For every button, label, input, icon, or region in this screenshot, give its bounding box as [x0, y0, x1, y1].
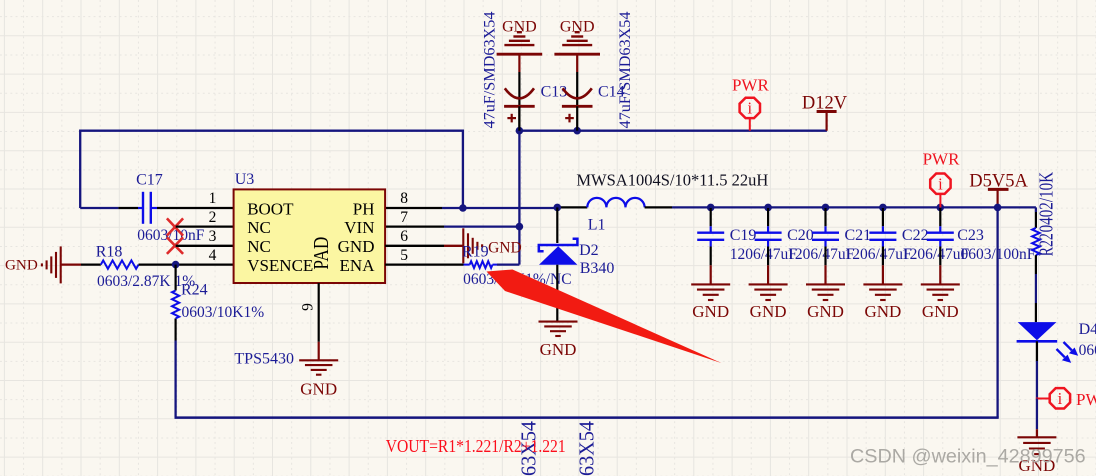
capacitor C17 (bootstrap, 0603/10nF)	[118, 171, 233, 244]
capacitor C20 (1206/47uF)	[749, 204, 855, 321]
pin 2 (NC)	[209, 209, 271, 237]
svg-text:6: 6	[400, 228, 408, 245]
svg-text:L1: L1	[588, 216, 606, 233]
ground GND (below D2)	[539, 322, 578, 360]
capacitor C13 (47uF/SMD63X54) with GND above	[482, 11, 568, 130]
svg-text:47uF/SMD63X54: 47uF/SMD63X54	[575, 421, 599, 476]
wire output rail (L1 to D5V5A / R22)	[672, 206, 1036, 208]
wire bottom feedback rail	[175, 416, 999, 419]
svg-text:9: 9	[299, 303, 316, 311]
node PH bootstrap junction	[459, 204, 467, 212]
wire feedback left riser to R24	[174, 318, 176, 417]
capacitor C21 (1206/47uF)	[806, 204, 912, 321]
svg-text:4: 4	[209, 247, 217, 264]
svg-text:R24: R24	[181, 282, 208, 299]
svg-text:C21: C21	[845, 227, 872, 244]
svg-text:8: 8	[400, 190, 408, 207]
svg-text:2: 2	[209, 209, 217, 226]
capacitor value text 47uF/SMD63X54 (cut off, C25)	[575, 421, 599, 476]
pin 9 (PAD)	[299, 237, 333, 361]
svg-text:NC: NC	[247, 218, 271, 237]
svg-text:47uF/SMD63X54: 47uF/SMD63X54	[617, 11, 634, 128]
svg-text:PH: PH	[353, 199, 375, 218]
svg-text:C13: C13	[541, 84, 568, 101]
ground GND (bottom right)	[1017, 437, 1056, 475]
svg-text:B340: B340	[580, 260, 615, 277]
power port D5V5A	[969, 171, 1028, 207]
svg-text:i: i	[938, 174, 943, 193]
capacitor C14 (47uF/SMD63X54) with GND above	[554, 11, 634, 130]
svg-text:D4: D4	[1079, 321, 1096, 338]
svg-text:0603/100nF: 0603/100nF	[961, 246, 1036, 263]
diode D2 B340 (Schottky)	[539, 207, 615, 321]
node C13 rail junction	[516, 127, 524, 135]
svg-text:R19: R19	[462, 243, 489, 260]
node C14 rail junction	[573, 127, 581, 135]
pin 5 (ENA)	[340, 247, 409, 275]
svg-text:C20: C20	[787, 227, 814, 244]
inductor L1 (MWSA1004S/10*11.5 22uH)	[559, 170, 768, 233]
wire VIN rail (D12V input)	[519, 130, 827, 132]
power port D12V	[802, 94, 848, 131]
svg-text:NC: NC	[247, 237, 271, 256]
svg-text:3: 3	[209, 228, 217, 245]
ground GND (below TPS5430 pad)	[299, 360, 338, 398]
svg-text:GND: GND	[300, 380, 337, 399]
svg-text:VSENCE: VSENCE	[247, 256, 313, 275]
pin 8 (PH)	[353, 190, 408, 218]
node VIN pin junction	[516, 223, 524, 231]
no-connect X on pin 2	[167, 218, 234, 235]
ground GND (pin 6)	[385, 228, 522, 263]
wire feedback from output to bottom rail	[996, 207, 998, 417]
capacitor C19 (1206/47uF)	[691, 204, 797, 321]
svg-text:7: 7	[400, 209, 408, 226]
svg-text:1: 1	[209, 190, 217, 207]
svg-text:0603: 0603	[1079, 342, 1096, 359]
svg-text:CSDN @weixin_42899756: CSDN @weixin_42899756	[850, 446, 1086, 468]
wire C13 column / VIN / ENA riser	[518, 106, 520, 264]
svg-text:R22: R22	[1037, 233, 1058, 256]
svg-text:47uF/SMD63X54: 47uF/SMD63X54	[482, 11, 499, 128]
svg-text:GND: GND	[864, 302, 901, 321]
watermark CSDN	[850, 446, 1086, 468]
svg-text:0603/10K1%: 0603/10K1%	[182, 304, 265, 321]
svg-text:5: 5	[400, 247, 408, 264]
capacitor value text 47uF/SMD63X54 (cut off, C24)	[517, 421, 541, 476]
svg-text:GND: GND	[807, 302, 844, 321]
svg-text:U3: U3	[235, 171, 255, 188]
svg-text:C23: C23	[957, 227, 984, 244]
annotation arrow (points at R19)	[487, 270, 722, 364]
svg-text:1206/47uF: 1206/47uF	[902, 246, 970, 263]
svg-text:R18: R18	[96, 244, 123, 261]
resistor R19 (0603/10K1%/NC)	[385, 243, 571, 288]
resistor R18 (0603/2.87K 1%)	[96, 244, 234, 291]
svg-text:C22: C22	[902, 227, 929, 244]
svg-text:VOUT=R1*1.221/R2+1.221: VOUT=R1*1.221/R2+1.221	[386, 436, 566, 456]
power probe PWR (LED cathode)	[1036, 388, 1096, 437]
wire PH net (pin 8 to L1 and D2)	[385, 207, 559, 209]
svg-text:GND: GND	[338, 237, 375, 256]
pin 7 (VIN)	[344, 209, 408, 237]
power probe PWR (input rail)	[732, 75, 770, 130]
svg-text:GND: GND	[540, 340, 577, 359]
svg-text:PAD: PAD	[309, 237, 333, 270]
pin 3 (NC)	[209, 228, 271, 256]
pin 1 (BOOT)	[209, 190, 294, 218]
svg-text:GND: GND	[750, 302, 787, 321]
pin 6 (GND)	[338, 228, 409, 256]
svg-text:MWSA1004S/10*11.5 22uH: MWSA1004S/10*11.5 22uH	[576, 170, 768, 189]
annotation VOUT formula	[386, 436, 566, 456]
LED D4 (0603)	[1017, 321, 1096, 398]
svg-text:GND: GND	[488, 239, 522, 256]
svg-text:PWR: PWR	[1076, 390, 1096, 409]
svg-text:GND: GND	[5, 258, 38, 274]
resistor R22 (0402/10K)	[1032, 172, 1057, 322]
wire BOOT bootstrap loop (C17 left to PH pin 8)	[80, 131, 463, 208]
svg-text:GND: GND	[692, 302, 729, 321]
IC U3 TPS5430	[234, 171, 386, 367]
power probe PWR (output rail)	[923, 149, 961, 207]
node FB junction (VSENCE / R24)	[172, 261, 180, 269]
svg-text:C17: C17	[136, 171, 163, 188]
svg-text:i: i	[1058, 389, 1063, 408]
svg-text:VIN: VIN	[344, 218, 374, 237]
svg-text:TPS5430: TPS5430	[234, 350, 294, 367]
wire VIN pin 7	[385, 225, 519, 227]
svg-text:GND: GND	[922, 302, 959, 321]
no-connect X on pin 3	[167, 237, 234, 254]
node D2 junction	[554, 204, 562, 212]
svg-text:PWR: PWR	[732, 75, 770, 94]
node D5V5A junction	[994, 204, 1002, 212]
capacitor C22 (1206/47uF)	[863, 204, 969, 321]
resistor R24 (0603/10K1%)	[172, 265, 264, 321]
wire ENA to R19 and VIN node	[497, 263, 519, 265]
svg-text:C19: C19	[730, 227, 757, 244]
svg-text:i: i	[748, 99, 753, 118]
svg-text:D2: D2	[579, 242, 599, 259]
svg-text:ENA: ENA	[340, 256, 376, 275]
capacitor C23 (0603/100nF)	[921, 204, 1036, 321]
pin 4 (VSENCE)	[209, 247, 314, 275]
svg-text:0402/10K: 0402/10K	[1037, 172, 1058, 233]
svg-text:BOOT: BOOT	[247, 199, 294, 218]
ground GND (left, to R18)	[5, 246, 101, 283]
svg-text:PWR: PWR	[923, 149, 961, 168]
